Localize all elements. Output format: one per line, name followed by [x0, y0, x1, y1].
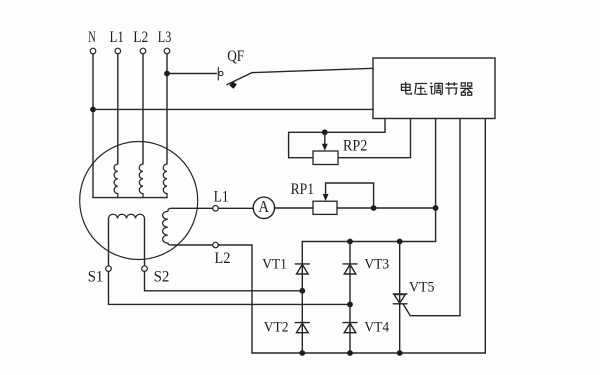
char 节: [445, 82, 457, 95]
terminal L2 mid: [213, 242, 219, 248]
svg-text:N: N: [88, 29, 96, 46]
node RP2 wiper junction: [322, 129, 328, 135]
wire S2 to VT1 cathode node: [145, 271, 303, 290]
wire box bottom through bridge top (right vertical): [435, 119, 437, 242]
svg-text:L1: L1: [214, 188, 229, 205]
terminal L2: [140, 48, 146, 54]
diode VT4: [343, 323, 357, 333]
svg-text:VT2: VT2: [264, 320, 289, 336]
node S1-bridge: [347, 302, 353, 308]
wire box bottom to RP2 wiper line: [289, 119, 385, 133]
wire L2 terminal from coil: [172, 244, 213, 246]
svg-text:S2: S2: [154, 268, 170, 285]
wire QF to regulator box: [252, 68, 373, 72]
svg-text:L2: L2: [215, 250, 231, 267]
wire star point: [93, 197, 167, 199]
char 调: [430, 83, 443, 95]
char 器: [460, 83, 472, 95]
wire L3 to QF: [167, 73, 216, 75]
wire L1 to ammeter: [218, 207, 253, 209]
motor circle G1: [80, 142, 198, 260]
ammeter PA: [253, 197, 274, 218]
node bottom VT2: [299, 350, 305, 356]
svg-text:RP1: RP1: [291, 181, 314, 198]
wire RP2 left terminal: [289, 132, 313, 157]
stator coil phase L1: [114, 164, 118, 198]
wire L2 to bridge left: [218, 245, 252, 353]
wire S1 to VT3 cathode node: [109, 271, 351, 304]
diode VT1: [295, 264, 309, 274]
wire RP1 right to bridge line: [337, 207, 436, 209]
svg-text:S1: S1: [88, 268, 104, 285]
resistor RP1: [313, 201, 337, 214]
wire coil to L1 terminal: [172, 207, 213, 209]
wire box bottom to RP2 right terminal: [338, 119, 411, 158]
switch QF fixed contact tick: [217, 68, 219, 81]
svg-text:QF: QF: [227, 48, 244, 65]
node L3-QF junction: [164, 71, 170, 77]
wire RP1 wiper loop: [326, 183, 374, 208]
regulator box U1: [373, 58, 495, 119]
wire ammeter to RP1: [274, 207, 313, 209]
switch QF contact circle: [219, 71, 223, 75]
diode VT2: [295, 323, 309, 333]
wire bottom rail: [252, 352, 485, 354]
wire VT1-VT2 leg: [301, 242, 303, 354]
char 压: [415, 84, 428, 95]
wire box bottom to bottom rail: [484, 119, 486, 354]
switch QF blade: [227, 73, 252, 85]
svg-text:A: A: [258, 197, 269, 216]
wire bridge top rail: [302, 241, 435, 243]
svg-text:VT4: VT4: [364, 320, 389, 336]
node RP1 wiper junction: [371, 205, 377, 211]
wire L2 vertical: [142, 54, 144, 164]
terminal L1 mid: [213, 206, 219, 212]
switch QF breaker square: [229, 81, 237, 89]
RP1 wiper arrow: [325, 183, 327, 196]
char 电: [401, 82, 411, 94]
stator coil phase L2: [139, 164, 143, 198]
terminal L3: [164, 48, 170, 54]
node top rail VT3: [347, 239, 353, 245]
output coil L1-L2: [163, 208, 172, 245]
thyristor VT5: [393, 294, 407, 304]
wire VT5 leg: [399, 242, 401, 354]
wire L1 vertical: [117, 54, 119, 164]
diode VT3: [343, 264, 357, 274]
node top rail VT5: [397, 239, 403, 245]
terminal S1: [106, 266, 112, 272]
rotor coil S1-S2: [109, 214, 145, 218]
svg-text:L1: L1: [110, 29, 124, 46]
RP2 wiper arrow: [324, 132, 326, 146]
wire rotor left to S1: [108, 219, 110, 266]
wire N vertical: [92, 54, 94, 198]
svg-text:L2: L2: [133, 29, 148, 46]
node bottom VT5: [397, 350, 403, 356]
svg-text:VT3: VT3: [364, 257, 389, 273]
node bottom VT4: [347, 350, 353, 356]
wire N to regulator box: [93, 108, 373, 110]
wire L3 vertical: [166, 54, 168, 164]
svg-text:RP2: RP2: [343, 137, 367, 154]
node S2-bridge: [299, 288, 305, 294]
node main line to box vertical: [433, 205, 439, 211]
terminal L1: [115, 48, 121, 54]
wire rotor right to S2: [144, 219, 146, 266]
node N junction: [90, 107, 96, 113]
svg-text:L3: L3: [158, 29, 172, 46]
resistor RP2: [313, 151, 338, 165]
wire box bottom to VT5 gate: [404, 119, 461, 316]
svg-text:VT1: VT1: [262, 257, 287, 273]
label 电压调节器 (hand-drawn CJK strokes): [401, 82, 472, 95]
terminal S2: [142, 266, 148, 272]
svg-text:VT5: VT5: [409, 280, 435, 296]
stator coil phase L3: [163, 164, 167, 198]
terminal N: [90, 48, 96, 54]
wire VT3-VT4 leg: [349, 242, 351, 354]
